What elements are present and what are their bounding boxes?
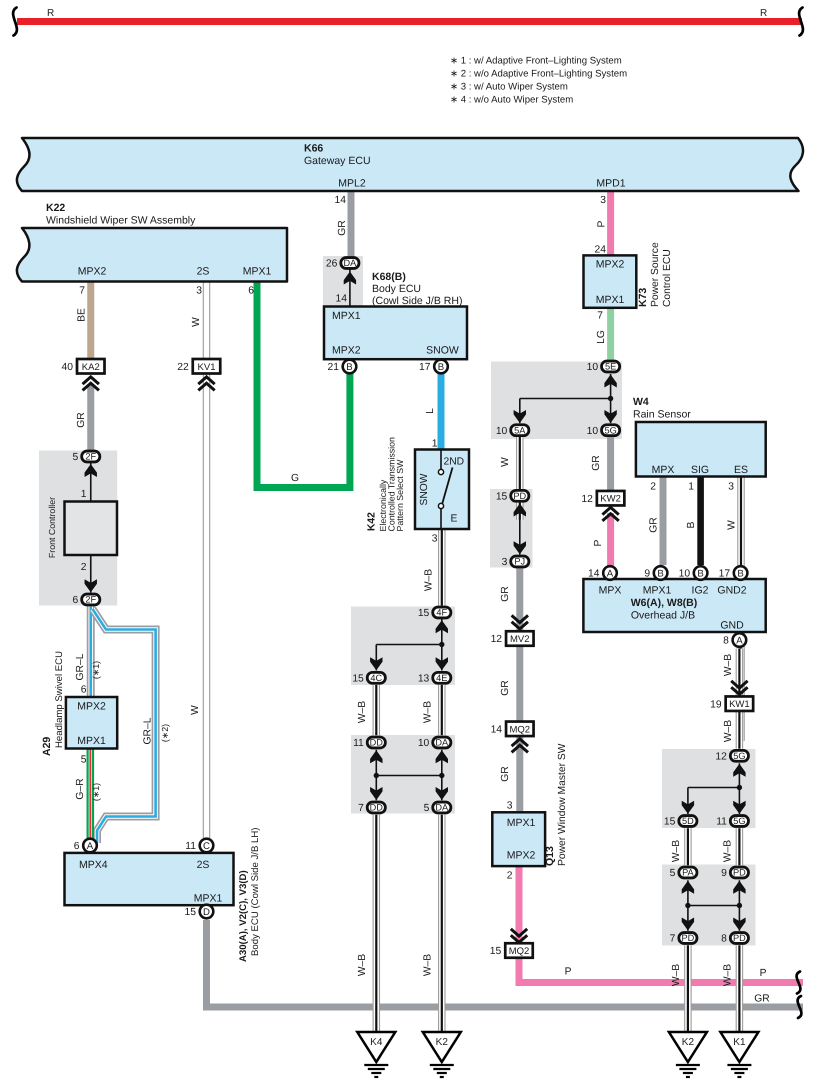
svg-text:W–B: W–B (723, 720, 734, 742)
svg-text:5A: 5A (514, 425, 526, 435)
svg-text:PJ: PJ (514, 557, 525, 567)
svg-text:15: 15 (496, 491, 508, 502)
svg-text:MPX2: MPX2 (77, 701, 106, 713)
svg-text:22: 22 (177, 362, 189, 373)
svg-text:LG: LG (596, 330, 607, 344)
svg-text:MPX1: MPX1 (507, 817, 536, 829)
svg-text:W–B: W–B (357, 954, 368, 976)
svg-text:10: 10 (679, 569, 691, 580)
svg-text:DD: DD (370, 803, 384, 813)
svg-text:GR: GR (337, 220, 348, 235)
svg-text:GR: GR (76, 412, 87, 427)
svg-text:B: B (438, 362, 444, 373)
svg-text:11: 11 (716, 817, 727, 828)
svg-text:SNOW: SNOW (419, 473, 430, 505)
svg-text:15: 15 (490, 946, 502, 957)
svg-text:4F: 4F (436, 608, 447, 618)
svg-text:17: 17 (419, 362, 431, 373)
svg-text:5: 5 (424, 803, 430, 814)
svg-text:W–B: W–B (423, 954, 434, 976)
svg-text:13: 13 (418, 673, 430, 684)
svg-text:21: 21 (328, 362, 340, 373)
svg-text:GR: GR (500, 680, 511, 695)
svg-text:10: 10 (418, 738, 430, 749)
svg-text:MPX1: MPX1 (77, 735, 106, 747)
svg-text:Gateway ECU: Gateway ECU (304, 155, 371, 167)
svg-text:K1: K1 (733, 1037, 746, 1048)
svg-text:MPX1: MPX1 (643, 585, 672, 597)
svg-text:9: 9 (644, 569, 650, 580)
svg-text:Overhead J/B: Overhead J/B (631, 610, 695, 622)
svg-text:K73: K73 (637, 288, 649, 307)
svg-text:8: 8 (721, 934, 727, 945)
svg-text:DA: DA (435, 803, 449, 813)
svg-text:19: 19 (710, 699, 722, 710)
svg-text:2F: 2F (85, 452, 96, 462)
svg-text:15: 15 (664, 817, 676, 828)
svg-text:Q13: Q13 (544, 846, 556, 866)
svg-text:P: P (760, 968, 767, 979)
svg-text:3: 3 (507, 801, 513, 812)
svg-text:11: 11 (353, 738, 364, 749)
svg-text:∗ 1 : w/ Adaptive Front–Lighti: ∗ 1 : w/ Adaptive Front–Lighting System (450, 56, 622, 67)
svg-text:(Cowl Side J/B RH): (Cowl Side J/B RH) (372, 295, 462, 307)
svg-text:PD: PD (682, 933, 695, 943)
svg-text:PD: PD (733, 868, 746, 878)
svg-text:∗ 2 : w/o Adaptive Front–Light: ∗ 2 : w/o Adaptive Front–Lighting System (450, 69, 627, 80)
svg-text:W: W (191, 317, 202, 327)
svg-text:B: B (346, 362, 352, 373)
svg-text:MPD1: MPD1 (596, 178, 625, 190)
svg-text:W–B: W–B (671, 840, 682, 862)
svg-text:14: 14 (336, 294, 348, 305)
svg-text:K68(B): K68(B) (372, 271, 406, 283)
svg-text:15: 15 (185, 907, 197, 918)
svg-text:R: R (760, 8, 767, 19)
svg-text:K2: K2 (682, 1037, 695, 1048)
svg-text:W–B: W–B (723, 654, 734, 676)
svg-text:(∗1): (∗1) (91, 783, 101, 801)
svg-text:A30(A), V2(C), V3(D): A30(A), V2(C), V3(D) (238, 870, 249, 962)
svg-text:MPL2: MPL2 (338, 178, 366, 190)
svg-text:A: A (87, 841, 94, 852)
svg-text:KW2: KW2 (600, 494, 621, 505)
svg-text:6: 6 (81, 685, 87, 696)
svg-text:14: 14 (588, 569, 600, 580)
svg-text:2S: 2S (197, 266, 210, 278)
svg-text:Windshield Wiper SW Assembly: Windshield Wiper SW Assembly (46, 215, 196, 227)
svg-text:PD: PD (513, 491, 526, 501)
svg-text:∗ 3 : w/ Auto Wiper System: ∗ 3 : w/ Auto Wiper System (450, 82, 568, 93)
svg-text:7: 7 (79, 286, 85, 297)
svg-text:(∗2): (∗2) (160, 724, 170, 742)
svg-text:GND: GND (720, 620, 744, 632)
svg-text:2ND: 2ND (444, 457, 465, 468)
svg-text:14: 14 (335, 195, 347, 206)
svg-text:3: 3 (728, 482, 734, 493)
svg-text:3: 3 (502, 557, 508, 568)
svg-text:Body ECU: Body ECU (372, 283, 421, 295)
svg-text:7: 7 (670, 934, 676, 945)
svg-text:W–B: W–B (424, 569, 435, 591)
svg-text:Power Window Master SW: Power Window Master SW (557, 743, 568, 866)
svg-text:A: A (736, 635, 743, 646)
svg-text:40: 40 (62, 362, 74, 373)
svg-text:5G: 5G (604, 425, 616, 435)
svg-text:10: 10 (587, 362, 599, 373)
svg-text:G–R: G–R (75, 778, 86, 799)
svg-text:24: 24 (595, 245, 607, 256)
svg-text:4C: 4C (370, 673, 382, 683)
svg-text:B: B (737, 568, 743, 579)
svg-text:15: 15 (352, 673, 364, 684)
svg-text:W–B: W–B (671, 964, 682, 986)
svg-text:MQ2: MQ2 (510, 724, 531, 735)
svg-text:5G: 5G (733, 751, 745, 761)
svg-text:W–B: W–B (423, 701, 434, 723)
svg-text:MPX: MPX (599, 585, 622, 597)
svg-text:MPX4: MPX4 (79, 859, 108, 871)
svg-text:3: 3 (432, 534, 438, 545)
svg-text:G: G (291, 473, 299, 484)
svg-text:2F: 2F (85, 595, 96, 605)
svg-text:B: B (686, 521, 697, 528)
svg-text:SIG: SIG (691, 464, 709, 476)
svg-text:2: 2 (650, 482, 656, 493)
svg-text:DA: DA (435, 738, 449, 748)
svg-text:P: P (565, 967, 572, 978)
svg-text:L: L (425, 408, 436, 414)
svg-text:K22: K22 (46, 202, 65, 214)
svg-text:7: 7 (358, 803, 364, 814)
svg-text:Power Source: Power Source (650, 242, 661, 307)
svg-text:1: 1 (432, 439, 438, 450)
svg-text:DD: DD (370, 738, 384, 748)
svg-text:D: D (203, 907, 210, 918)
svg-text:K4: K4 (370, 1037, 383, 1048)
svg-text:GND2: GND2 (717, 585, 746, 597)
svg-text:14: 14 (491, 724, 503, 735)
svg-text:R: R (47, 8, 54, 19)
svg-text:17: 17 (719, 569, 731, 580)
svg-text:(∗1): (∗1) (91, 661, 101, 679)
svg-text:6: 6 (74, 841, 80, 852)
svg-text:MQ2: MQ2 (509, 946, 530, 957)
svg-text:W: W (190, 705, 201, 715)
svg-text:B: B (697, 568, 703, 579)
svg-text:IG2: IG2 (692, 585, 709, 597)
svg-text:GR: GR (500, 586, 511, 601)
svg-text:Rain Sensor: Rain Sensor (633, 409, 691, 421)
svg-text:KW1: KW1 (729, 699, 750, 710)
svg-text:MPX: MPX (652, 464, 675, 476)
svg-text:5: 5 (670, 868, 676, 879)
svg-text:MPX1: MPX1 (332, 310, 361, 322)
svg-text:P: P (593, 539, 604, 546)
svg-text:3: 3 (600, 195, 606, 206)
svg-text:5: 5 (81, 755, 87, 766)
svg-text:GR–L: GR–L (75, 653, 86, 680)
svg-text:W6(A), W8(B): W6(A), W8(B) (631, 597, 698, 609)
svg-text:1: 1 (688, 482, 694, 493)
svg-text:PD: PD (733, 933, 746, 943)
svg-text:E: E (451, 514, 458, 525)
svg-text:Front Controller: Front Controller (47, 497, 57, 558)
svg-text:BE: BE (77, 308, 88, 322)
svg-text:DA: DA (344, 258, 358, 268)
svg-text:10: 10 (496, 426, 508, 437)
svg-text:Control ECU: Control ECU (662, 249, 673, 307)
svg-text:MPX2: MPX2 (78, 266, 107, 278)
svg-text:KA2: KA2 (82, 362, 100, 373)
svg-text:W: W (727, 520, 738, 530)
svg-text:C: C (203, 841, 210, 852)
svg-text:Headlamp Swivel ECU: Headlamp Swivel ECU (54, 651, 65, 748)
svg-text:∗ 4 : w/o Auto Wiper System: ∗ 4 : w/o Auto Wiper System (450, 95, 573, 106)
svg-text:W–B: W–B (723, 964, 734, 986)
svg-text:P: P (597, 220, 608, 227)
svg-text:GR: GR (754, 994, 769, 1005)
svg-text:MPX1: MPX1 (243, 266, 272, 278)
svg-text:4E: 4E (436, 673, 447, 683)
svg-text:GR: GR (591, 455, 602, 470)
svg-text:ES: ES (734, 464, 748, 476)
svg-text:MPX2: MPX2 (596, 259, 625, 271)
svg-text:GR: GR (500, 766, 511, 781)
svg-text:W4: W4 (633, 396, 649, 408)
svg-text:Body ECU (Cowl Side J/B LH): Body ECU (Cowl Side J/B LH) (250, 828, 261, 957)
svg-text:9: 9 (721, 868, 727, 879)
svg-text:K42: K42 (367, 512, 378, 531)
svg-text:7: 7 (597, 311, 603, 322)
svg-text:Pattern Select SW: Pattern Select SW (395, 459, 405, 532)
svg-text:A29: A29 (41, 737, 53, 756)
svg-text:5E: 5E (605, 362, 616, 372)
svg-text:2: 2 (81, 562, 87, 573)
svg-text:12: 12 (581, 494, 593, 505)
svg-text:W–B: W–B (723, 840, 734, 862)
svg-text:MPX1: MPX1 (596, 294, 625, 306)
svg-text:12: 12 (715, 751, 727, 762)
svg-text:5: 5 (73, 452, 79, 463)
svg-text:SNOW: SNOW (426, 345, 459, 357)
svg-text:MPX1: MPX1 (194, 893, 223, 905)
svg-text:2S: 2S (197, 859, 210, 871)
svg-text:MV2: MV2 (510, 634, 530, 645)
svg-text:12: 12 (491, 634, 503, 645)
svg-text:GR: GR (649, 517, 660, 532)
svg-text:KV1: KV1 (198, 362, 216, 373)
svg-text:A: A (607, 568, 614, 579)
svg-text:11: 11 (185, 841, 196, 852)
svg-text:PA: PA (682, 868, 694, 878)
svg-text:GR–L: GR–L (143, 717, 154, 744)
svg-text:8: 8 (723, 636, 729, 647)
svg-text:B: B (657, 568, 663, 579)
svg-text:6: 6 (73, 595, 79, 606)
svg-text:W–B: W–B (357, 701, 368, 723)
svg-text:MPX2: MPX2 (507, 850, 536, 862)
svg-text:2: 2 (507, 871, 513, 882)
svg-text:5G: 5G (733, 816, 745, 826)
svg-text:3: 3 (196, 286, 202, 297)
svg-text:10: 10 (587, 426, 599, 437)
svg-text:15: 15 (418, 608, 430, 619)
svg-text:6: 6 (248, 286, 254, 297)
svg-text:5D: 5D (682, 816, 694, 826)
svg-text:MPX2: MPX2 (332, 345, 361, 357)
svg-text:K2: K2 (436, 1037, 449, 1048)
svg-text:26: 26 (326, 259, 338, 270)
svg-text:W: W (500, 457, 511, 467)
svg-text:1: 1 (81, 489, 87, 500)
svg-text:K66: K66 (304, 143, 323, 155)
